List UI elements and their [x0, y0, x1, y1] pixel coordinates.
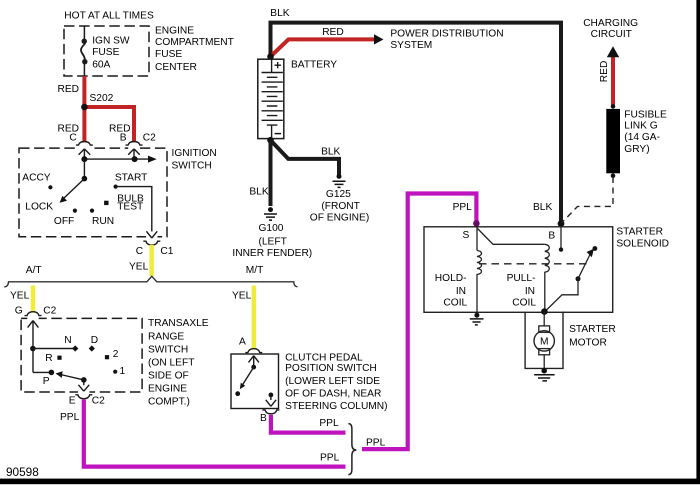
fuse box (engine compartment fuse center) dashed box: [64, 26, 149, 76]
connector arc A: [245, 349, 262, 353]
svg-text:B: B: [120, 133, 127, 144]
svg-text:BLK: BLK: [321, 146, 340, 157]
ground G125: [337, 174, 342, 179]
svg-text:90598: 90598: [6, 465, 39, 479]
wire RED fuse to S202: [82, 76, 86, 142]
clutch pedal position switch box: [231, 354, 279, 409]
terminal arrow A (into clutch switch): [249, 356, 259, 367]
svg-text:OF OF DASH, NEAR: OF OF DASH, NEAR: [285, 389, 381, 400]
clutch wiper arm: [242, 367, 253, 385]
node battery positive: [267, 53, 274, 60]
connector arc C: [76, 142, 93, 146]
contact fixed upper: [593, 246, 598, 251]
svg-text:N: N: [64, 335, 71, 346]
battery minus: [275, 133, 281, 135]
wire RED charging: [611, 57, 615, 106]
wire fuse top lead: [83, 26, 85, 40]
contact clutch lower: [235, 391, 240, 396]
svg-text:STARTER: STARTER: [569, 324, 616, 335]
svg-text:60A: 60A: [92, 59, 110, 70]
contact START: [114, 185, 118, 189]
node B terminal: [558, 220, 565, 227]
svg-text:YEL: YEL: [232, 290, 252, 301]
svg-text:CLUTCH PEDAL: CLUTCH PEDAL: [285, 352, 363, 363]
wire PPL trunk to solenoid S: [362, 194, 476, 450]
svg-text:RANGE: RANGE: [148, 331, 184, 342]
svg-text:A: A: [239, 337, 246, 348]
svg-text:B: B: [260, 413, 267, 424]
svg-text:TRANSAXLE: TRANSAXLE: [148, 318, 209, 329]
wire YEL M/T: [252, 286, 256, 350]
svg-text:P: P: [43, 376, 50, 387]
node bus-B: [132, 156, 138, 162]
svg-text:(FRONT: (FRONT: [321, 201, 359, 212]
solenoid contact arm: [576, 276, 581, 281]
node bus-C: [81, 156, 87, 162]
svg-text:2: 2: [113, 349, 119, 360]
node wiper pivot: [82, 176, 88, 182]
svg-text:SWITCH: SWITCH: [172, 160, 212, 171]
wire ignition bus: [84, 158, 149, 160]
wire to N contact and P contact: [33, 349, 75, 373]
svg-text:TEST: TEST: [117, 202, 143, 213]
svg-text:LOCK: LOCK: [25, 202, 53, 213]
svg-text:COIL: COIL: [512, 298, 536, 309]
wire E to box bottom: [83, 380, 85, 385]
svg-text:RED: RED: [322, 27, 344, 38]
wire S to hold-in coil: [476, 227, 478, 251]
terminal arrow B (out of clutch switch): [266, 395, 276, 406]
wire YEL A/T: [31, 286, 35, 313]
border bottom bar: [0, 479, 700, 485]
wire BLK battery to G100: [269, 140, 273, 206]
svg-text:ACCY: ACCY: [22, 172, 51, 183]
connector arc E: [75, 395, 92, 399]
connector arc C1: [143, 241, 160, 245]
svg-text:PPL: PPL: [320, 452, 340, 463]
node S terminal: [473, 220, 480, 227]
svg-text:(ON LEFT: (ON LEFT: [148, 357, 194, 368]
svg-text:A/T: A/T: [26, 265, 42, 276]
motor M symbol: [539, 326, 550, 332]
battery top wire BLK: [271, 23, 562, 222]
battery box: [258, 59, 284, 138]
terminal arrow C (into ignition switch): [79, 149, 91, 159]
svg-text:1: 1: [120, 366, 126, 377]
border right bar: [696, 0, 700, 484]
wire S diagonal to pull-in coil: [478, 229, 545, 245]
svg-text:R: R: [45, 353, 52, 364]
contact OFF: [73, 209, 77, 213]
svg-text:COMPT.): COMPT.): [148, 397, 190, 408]
svg-text:FUSE: FUSE: [155, 49, 182, 60]
wire RED branch S202 to C2: [84, 107, 134, 142]
svg-text:B: B: [548, 231, 555, 242]
terminal arrow E (out of transaxle switch): [78, 385, 89, 391]
svg-text:C1: C1: [160, 246, 173, 257]
svg-text:OFF: OFF: [54, 216, 74, 227]
svg-text:C: C: [136, 246, 143, 257]
wire YEL from C1: [149, 245, 153, 276]
svg-text:G100: G100: [259, 223, 284, 234]
svg-text:HOT AT ALL TIMES: HOT AT ALL TIMES: [64, 10, 154, 21]
svg-text:PPL: PPL: [366, 437, 386, 448]
contact P: [49, 370, 55, 376]
wire PPL clutch to brace: [271, 415, 346, 433]
svg-text:(LOWER LEFT SIDE: (LOWER LEFT SIDE: [285, 376, 380, 387]
contact R (square): [57, 356, 61, 360]
transaxle wiper arm E to P: [61, 375, 84, 380]
svg-text:E: E: [69, 396, 76, 407]
wire START to C1: [116, 187, 152, 232]
svg-text:COMPARTMENT: COMPARTMENT: [155, 37, 234, 48]
svg-text:C2: C2: [43, 305, 56, 316]
svg-text:YEL: YEL: [10, 291, 30, 302]
svg-text:CIRCUIT: CIRCUIT: [591, 29, 632, 40]
hold-in coil: [477, 251, 482, 313]
gap covers transaxle box: [27, 317, 38, 321]
ground starter motor: [541, 368, 547, 374]
svg-text:C2: C2: [92, 396, 105, 407]
dashed link to B: [562, 177, 614, 223]
svg-text:IN: IN: [456, 286, 466, 297]
svg-text:RED: RED: [58, 84, 80, 95]
svg-text:M/T: M/T: [246, 265, 264, 276]
brace PPL combine: [348, 424, 356, 475]
svg-text:S202: S202: [90, 93, 114, 104]
svg-text:SYSTEM: SYSTEM: [390, 40, 432, 51]
svg-text:GRY): GRY): [624, 144, 649, 155]
gap covers on ignition box top: [79, 146, 91, 150]
svg-text:BLK: BLK: [533, 202, 552, 213]
contact clutch B side: [269, 393, 274, 398]
contact D (diamond): [89, 345, 95, 351]
ignition wiper arm to LOCK: [64, 179, 85, 199]
svg-text:PPL: PPL: [60, 412, 80, 423]
svg-text:C2: C2: [143, 133, 156, 144]
svg-text:SWITCH: SWITCH: [148, 345, 188, 356]
svg-text:OF ENGINE): OF ENGINE): [310, 213, 369, 224]
ground G100: [268, 207, 273, 212]
svg-text:LINK G: LINK G: [624, 121, 657, 132]
contact ACCY: [48, 185, 52, 189]
svg-text:IGN SW: IGN SW: [92, 36, 130, 47]
pull-in coil: [545, 244, 550, 311]
svg-text:IN: IN: [525, 286, 535, 297]
wire PPL transaxle to brace: [84, 399, 346, 466]
battery plates: [262, 58, 283, 141]
terminal arrow G (into transaxle switch): [28, 321, 39, 373]
node E pivot: [81, 377, 87, 383]
svg-text:STEERING COLUMN): STEERING COLUMN): [285, 401, 387, 412]
connector arc C2: [126, 142, 143, 146]
contact 2 (square): [105, 355, 109, 359]
svg-text:ENGINE: ENGINE: [155, 25, 194, 36]
svg-text:STARTER: STARTER: [616, 227, 663, 238]
battery plus: [275, 62, 281, 68]
svg-text:CHARGING: CHARGING: [583, 18, 638, 29]
svg-text:START: START: [115, 172, 147, 183]
svg-text:IGNITION: IGNITION: [172, 148, 217, 159]
svg-text:SIDE OF: SIDE OF: [148, 371, 189, 382]
ground hold-in coil: [474, 313, 479, 318]
svg-text:HOLD-: HOLD-: [435, 273, 467, 284]
svg-text:RUN: RUN: [92, 216, 114, 227]
svg-text:POWER DISTRIBUTION: POWER DISTRIBUTION: [390, 29, 503, 40]
svg-text:BLK: BLK: [270, 8, 289, 19]
node S202: [81, 104, 88, 111]
transaxle range switch dashed box: [21, 318, 142, 392]
svg-text:FUSIBLE: FUSIBLE: [624, 109, 667, 120]
linkage dashed line: [479, 263, 587, 265]
ignition switch dashed box: [19, 148, 167, 237]
node motor junction: [541, 308, 548, 315]
contact RUN: [90, 209, 94, 213]
svg-text:YEL: YEL: [129, 262, 149, 273]
svg-text:BATTERY: BATTERY: [291, 59, 337, 70]
svg-text:(LEFT: (LEFT: [259, 236, 287, 247]
svg-text:COIL: COIL: [443, 298, 467, 309]
svg-text:MOTOR: MOTOR: [569, 337, 607, 348]
wire motor to ground: [543, 355, 545, 369]
brace wire split A/T M/T: [4, 276, 297, 287]
svg-text:G: G: [15, 305, 23, 316]
svg-text:INNER FENDER): INNER FENDER): [232, 248, 312, 259]
svg-text:C: C: [69, 133, 76, 144]
terminal arrow B (into ignition switch): [128, 149, 140, 159]
svg-text:POSITION SWITCH: POSITION SWITCH: [285, 363, 377, 374]
svg-text:(14 GA-: (14 GA-: [624, 132, 660, 143]
svg-text:BLK: BLK: [249, 187, 268, 198]
connector arc B clutch: [262, 410, 279, 414]
fuse IGN SW FUSE 60A symbol: [82, 39, 87, 44]
contact BULB TEST square: [104, 201, 108, 205]
svg-text:RED: RED: [599, 61, 610, 83]
contact clutch upper: [251, 365, 256, 370]
wire contact arm to junction: [545, 279, 578, 312]
contact N (diamond): [72, 345, 78, 351]
terminal arrow C1 (out of ignition switch): [146, 231, 157, 238]
svg-text:D: D: [91, 335, 98, 346]
fusible link G: [611, 104, 616, 109]
wire fuse bottom lead: [83, 62, 85, 77]
wire junction to motor: [543, 312, 545, 326]
connector arc G: [25, 312, 42, 316]
node battery negative: [267, 137, 274, 144]
svg-text:CENTER: CENTER: [155, 62, 197, 73]
starter motor box: [525, 312, 563, 369]
node transaxle left: [30, 346, 36, 352]
svg-text:ENGINE: ENGINE: [148, 383, 187, 394]
svg-text:PULL-: PULL-: [507, 273, 536, 284]
svg-text:S: S: [463, 230, 470, 241]
wire RED to power distribution: [271, 39, 376, 56]
svg-text:PPL: PPL: [319, 418, 339, 429]
wire BLK branch to G125: [271, 140, 340, 174]
svg-text:M: M: [540, 337, 549, 348]
contact 1: [113, 370, 117, 374]
wire B inner contact: [560, 226, 562, 250]
svg-text:PPL: PPL: [453, 202, 473, 213]
wire bus to wiper pivot: [83, 159, 85, 179]
starter solenoid box: [424, 227, 613, 312]
svg-text:G125: G125: [326, 189, 351, 200]
svg-text:FUSE: FUSE: [92, 47, 119, 58]
svg-text:SOLENOID: SOLENOID: [616, 239, 669, 250]
